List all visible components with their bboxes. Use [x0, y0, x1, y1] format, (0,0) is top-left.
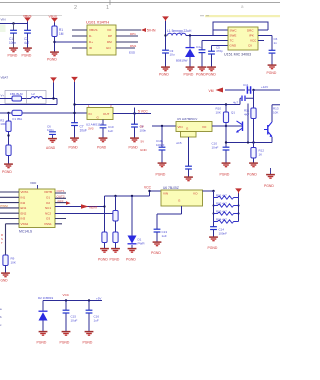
- capacitor C14: [210, 227, 217, 230]
- svg-text:4u7: 4u7: [233, 101, 238, 105]
- label Q1: [231, 111, 235, 115]
- svg-text:ESD: ESD: [129, 51, 136, 55]
- resistor R21: [214, 196, 239, 199]
- pin labels U151 left column: [230, 28, 238, 47]
- svg-text:OUT: OUT: [103, 112, 110, 116]
- wire box2 input: [152, 125, 176, 127]
- svg-text:C4+: C4+: [196, 45, 202, 49]
- power flag PWR4: [71, 77, 78, 82]
- wire R1 top stem: [54, 23, 56, 27]
- resistor R2: [6, 121, 11, 137]
- svg-text:DP: DP: [108, 34, 112, 38]
- svg-text:10nF: 10nF: [212, 145, 219, 149]
- junction dot x162: [161, 125, 163, 127]
- net label VCC red: [144, 186, 152, 190]
- inductor L1 label: [167, 29, 192, 33]
- net label right: [261, 85, 268, 89]
- label U2 below: [86, 123, 103, 131]
- svg-text:U151 MIC 34063: U151 MIC 34063: [224, 53, 251, 57]
- power flag ladder top: [235, 188, 242, 193]
- label C1 value: [9, 37, 16, 45]
- label C6: [274, 37, 278, 45]
- net labels U3 right: [57, 189, 65, 204]
- pin labels U2: [89, 112, 110, 120]
- svg-text:PGND: PGND: [267, 71, 277, 75]
- junction dots bus2: [7, 112, 75, 114]
- ground GND16: [156, 163, 167, 176]
- pin numbers U2: [88, 104, 112, 108]
- wire U6 gnd L path: [157, 206, 182, 229]
- svg-text:5V-IN: 5V-IN: [147, 29, 156, 33]
- capacitor C12: [242, 96, 245, 102]
- label C10: [212, 142, 219, 150]
- resistor R10: [223, 112, 228, 123]
- junction dot x226: [225, 125, 227, 127]
- svg-text:VIN: VIN: [1, 18, 6, 22]
- label red left pair: [140, 140, 148, 153]
- wire U151 top bridge: [213, 22, 268, 36]
- label R2: [0, 119, 5, 127]
- net arrow small: [66, 201, 71, 205]
- label C12: [233, 101, 238, 105]
- wire U2 out: [113, 113, 151, 115]
- wire diode stem: [189, 36, 191, 67]
- svg-text:D2 1N5819: D2 1N5819: [38, 296, 54, 300]
- svg-text:100n: 100n: [140, 128, 147, 132]
- capacitor C1: [10, 30, 17, 33]
- node J-IN left edge label: [0, 18, 6, 33]
- label U3 below: [19, 230, 33, 234]
- svg-text:10uF: 10uF: [71, 318, 78, 322]
- svg-text:NC2: NC2: [45, 211, 51, 215]
- junction dot: [53, 41, 55, 43]
- inductor L1 coil: [168, 33, 186, 35]
- svg-text:VBUS: VBUS: [49, 15, 57, 19]
- wire top net y90: [225, 89, 280, 91]
- pin labels U101 right column: [106, 28, 112, 50]
- svg-text:PWR: PWR: [138, 241, 146, 245]
- svg-text:PGND: PGND: [156, 173, 166, 177]
- svg-text:10u: 10u: [170, 53, 175, 57]
- svg-text:IN3: IN3: [21, 217, 26, 221]
- ground GND2: [22, 48, 32, 57]
- svg-text:VCC: VCC: [144, 186, 152, 190]
- wire Q1 collector: [247, 104, 249, 143]
- wire U151 pin3 to cap C4: [202, 41, 228, 67]
- label U6: [163, 186, 179, 190]
- capacitor C15: [63, 310, 70, 313]
- ground GND20: [1, 273, 10, 282]
- wire U101 left pin stubs: [72, 30, 87, 48]
- label R12: [259, 149, 265, 157]
- svg-text:IN2: IN2: [21, 201, 26, 205]
- svg-text:D+: D+: [89, 40, 93, 44]
- ground GND19: [264, 168, 275, 188]
- junction dot x104.5: [103, 205, 105, 207]
- label C4: [196, 45, 202, 49]
- capacitor C6b column: [47, 125, 56, 139]
- svg-text:OUT2: OUT2: [57, 194, 65, 198]
- transistor Q2: [264, 122, 272, 137]
- svg-text:VIN: VIN: [163, 192, 168, 196]
- svg-text:VO: VO: [107, 28, 112, 32]
- wire cap C2 stem: [27, 24, 29, 48]
- ground GND13: [97, 138, 107, 149]
- svg-text:PGND: PGND: [8, 54, 18, 58]
- svg-text:1K: 1K: [259, 152, 263, 156]
- sheet border top line: [0, 0, 280, 16]
- ground GND5: [184, 67, 195, 76]
- svg-text:DM: DM: [107, 40, 112, 44]
- svg-text:SWC: SWC: [230, 28, 238, 32]
- svg-text:PGND: PGND: [47, 58, 57, 62]
- svg-text:2: 2: [74, 5, 77, 11]
- label FB1: [10, 92, 23, 96]
- ground GND8: [267, 65, 277, 75]
- resistor R11: [251, 108, 256, 119]
- resistor R3: [6, 145, 11, 156]
- resistor R6: [113, 232, 118, 243]
- label R13 right edge: [273, 107, 279, 115]
- label C2 value: [24, 37, 30, 45]
- wire emitter rail y142.5: [226, 142, 272, 144]
- wire filter mid: [22, 98, 32, 100]
- svg-text:4u7: 4u7: [24, 41, 30, 45]
- IC U3 body: [19, 189, 55, 228]
- capacitor C7: [71, 123, 78, 126]
- inductor L2 bumps: [31, 97, 42, 99]
- svg-text:PGND: PGND: [22, 54, 32, 58]
- svg-text:DP1: DP1: [130, 32, 136, 36]
- diode D101: [185, 48, 195, 57]
- label u5 tab: [176, 141, 182, 145]
- capacitor C16: [86, 310, 93, 313]
- wire long bus y104.5: [75, 104, 241, 106]
- resistor R12: [251, 148, 256, 159]
- junction dots bottom net: [65, 299, 90, 301]
- wire cap C1 stem: [13, 24, 15, 48]
- svg-text:1M: 1M: [59, 32, 64, 36]
- svg-text:NC1: NC1: [45, 206, 51, 210]
- ferrite bead FB1: [12, 96, 22, 101]
- filter box divider: [26, 91, 28, 104]
- wire diode D2 stem: [42, 301, 44, 332]
- wire U6 output: [203, 190, 214, 192]
- svg-text:C11: C11: [243, 83, 249, 87]
- svg-text:10uF: 10uF: [80, 128, 87, 132]
- svg-text:T: T: [1, 241, 3, 245]
- label C5: [216, 46, 223, 54]
- label C101: [156, 139, 165, 147]
- svg-text:PGND: PGND: [247, 173, 257, 177]
- svg-text:IPK: IPK: [249, 34, 254, 38]
- ground GND1: [8, 48, 18, 57]
- wire cap C101 column: [161, 126, 163, 163]
- regulator U5 body: [176, 122, 212, 138]
- power flag PWR2: [51, 18, 58, 23]
- ground GND17: [220, 163, 231, 176]
- wire column x132: [131, 196, 133, 248]
- net label VCC bottom: [63, 293, 70, 297]
- resistor R9: [3, 255, 8, 266]
- svg-text:10K: 10K: [273, 110, 278, 114]
- svg-text:D-: D-: [89, 34, 92, 38]
- svg-text:VDD: VDD: [30, 181, 37, 185]
- wire C14 to ground: [213, 230, 215, 237]
- label C11: [243, 83, 249, 87]
- capacitor C10: [223, 147, 230, 150]
- junction dot L1 left: [164, 34, 166, 36]
- svg-text:VO: VO: [202, 125, 207, 129]
- pin labels U3 left column: [21, 190, 29, 226]
- ground GND24: [151, 242, 161, 255]
- svg-text:DRC: DRC: [247, 28, 254, 32]
- svg-text:5 VCC: 5 VCC: [138, 110, 148, 114]
- svg-text:GND: GND: [140, 148, 148, 152]
- wire power column x76: [74, 82, 76, 138]
- node VBUS top-left label: [23, 14, 31, 18]
- svg-text:PGND: PGND: [98, 258, 108, 262]
- svg-text:uC5: uC5: [176, 141, 182, 145]
- IC U151 body: [228, 27, 258, 50]
- fuse F1 on bus: [12, 110, 22, 121]
- svg-text:PGND: PGND: [2, 170, 12, 174]
- svg-text:VSS2: VSS2: [21, 222, 29, 226]
- wire column x115.5: [115, 196, 117, 248]
- wire U5 tab stem: [188, 137, 190, 166]
- label R22: [216, 202, 227, 206]
- svg-text:PWM: PWM: [0, 204, 8, 208]
- resistor R1: [52, 26, 57, 37]
- net label arrow VOUT: [141, 28, 156, 33]
- ground GND22: [110, 249, 120, 262]
- ground GND26: [37, 332, 48, 345]
- wire U3 pin row 202.6: [55, 202, 66, 204]
- svg-text:VBAT: VBAT: [1, 76, 9, 80]
- wire right branch top: [272, 105, 280, 122]
- capacitor C8: [131, 124, 138, 127]
- capacitor C4: [199, 50, 206, 53]
- junction dot diode top: [189, 34, 191, 36]
- label R24: [216, 218, 227, 222]
- label U151: [224, 53, 251, 57]
- ground GND6: [196, 67, 206, 76]
- label C16: [94, 315, 100, 323]
- label R21: [216, 194, 227, 198]
- svg-text:1uF: 1uF: [108, 129, 113, 133]
- node VBUS label R column: [49, 15, 57, 19]
- wire bottom net: [43, 300, 102, 302]
- svg-text:IN: IN: [89, 112, 92, 116]
- svg-text:4K7: 4K7: [244, 112, 250, 116]
- svg-text:Q1: Q1: [231, 111, 235, 115]
- svg-text:100nF: 100nF: [156, 143, 165, 147]
- label R1: [59, 28, 64, 36]
- svg-text:1: 1: [106, 5, 109, 11]
- LED D1: [128, 236, 137, 244]
- wire cap C16 stem: [88, 301, 90, 332]
- svg-text:IN1: IN1: [21, 196, 26, 200]
- junction dot: [12, 22, 14, 24]
- svg-text:10K: 10K: [11, 260, 16, 264]
- wire U3 long pin row 206.5: [55, 206, 105, 208]
- op-amp U101 body: [87, 25, 116, 55]
- capacitor C101: [159, 147, 166, 150]
- svg-text:U101 X34TH: U101 X34TH: [86, 20, 109, 25]
- svg-text:1n: 1n: [274, 41, 278, 45]
- wire U151 right pins: [258, 30, 272, 50]
- power flag arrow VM: [209, 88, 224, 94]
- svg-text:VSS1: VSS1: [44, 222, 52, 226]
- wire switch node: [186, 35, 213, 37]
- wire column x253.5: [253, 90, 255, 163]
- resistor R4: [102, 232, 107, 243]
- op-amp U101 label: [86, 20, 109, 25]
- svg-text:PGND: PGND: [151, 251, 161, 255]
- svg-text:EN1: EN1: [21, 206, 27, 210]
- wire top-left horizontal: [0, 22, 28, 24]
- pin labels U151 right column: [247, 28, 257, 47]
- ground GND14: [129, 138, 139, 149]
- svg-text:VENT: VENT: [89, 206, 98, 210]
- svg-text:5V: 5V: [141, 140, 145, 144]
- svg-text:470p: 470p: [216, 49, 223, 53]
- svg-text:VM: VM: [209, 89, 214, 93]
- svg-text:100n: 100n: [9, 41, 16, 45]
- label R9: [11, 257, 16, 265]
- label C13: [162, 230, 168, 238]
- svg-text:VCC: VCC: [250, 39, 257, 43]
- wire U151 pin4 to cap C5: [212, 46, 229, 67]
- svg-text:PGND: PGND: [37, 341, 47, 345]
- ground GND25: [208, 237, 218, 250]
- svg-text:PGND: PGND: [159, 73, 169, 77]
- svg-text:3V3: 3V3: [88, 126, 94, 130]
- label R23: [216, 210, 227, 214]
- wire R1 bottom to ground: [54, 37, 56, 52]
- label R10: [216, 107, 222, 115]
- svg-text:VCC: VCC: [63, 293, 70, 297]
- ground GND15: [184, 177, 193, 181]
- ground GND27: [60, 332, 71, 345]
- label D2: [38, 296, 54, 300]
- ground GND29: [46, 139, 57, 150]
- ground GND18: [247, 163, 258, 176]
- capacitor C3 buck in: [162, 50, 169, 53]
- svg-text:F1 05A: F1 05A: [13, 117, 23, 121]
- svg-text:100nF: 100nF: [219, 231, 228, 235]
- wire filter right to rail: [0, 99, 57, 105]
- pin labels U101 left column: [89, 28, 97, 50]
- junction dots emitter rail: [225, 141, 255, 143]
- svg-text:L2: L2: [32, 92, 36, 96]
- ground GND21: [98, 249, 109, 262]
- svg-text:GND: GND: [230, 44, 238, 48]
- net label right end: [96, 297, 101, 301]
- resistor R24: [214, 220, 239, 223]
- net label box2 in: [140, 124, 145, 128]
- title band fragment top right: [200, 15, 280, 17]
- label R11: [244, 109, 250, 117]
- svg-text:1uF: 1uF: [94, 318, 99, 322]
- svg-text:PGND: PGND: [83, 341, 93, 345]
- svg-text:PGND: PGND: [220, 173, 230, 177]
- wire U101 right pin stubs: [116, 30, 141, 48]
- wire cap C15 stem: [65, 301, 67, 332]
- wire LED net y196: [105, 195, 150, 197]
- pin labels U5: [178, 125, 208, 131]
- label C7: [80, 125, 87, 133]
- pin labels U3 right column: [44, 190, 52, 226]
- transistor Q1: [236, 121, 243, 133]
- ground GND7: [206, 67, 216, 76]
- filter box outline: [5, 91, 46, 104]
- svg-text:DM1: DM1: [130, 44, 137, 48]
- svg-text:PGND: PGND: [206, 73, 216, 77]
- svg-text:OUT1: OUT1: [57, 189, 65, 193]
- wire U3 long pin row 213.5: [55, 213, 116, 215]
- svg-text:VO: VO: [193, 192, 198, 196]
- label C8: [140, 125, 147, 133]
- regulator U2 body: [87, 108, 113, 120]
- power flag PWR1: [24, 17, 31, 22]
- svg-text:PGND: PGND: [208, 246, 218, 250]
- svg-text:VBUS: VBUS: [23, 14, 31, 18]
- resistor R5: [113, 211, 118, 222]
- capacitor C9: [185, 166, 192, 176]
- svg-text:VDTA: VDTA: [21, 190, 29, 194]
- svg-text:U5 LM7805CV: U5 LM7805CV: [177, 117, 198, 121]
- capacitor C6 right: [269, 50, 276, 64]
- pin labels U6: [163, 192, 198, 203]
- wire bus corner cap C12: [240, 98, 254, 104]
- svg-text:VDTB: VDTB: [44, 190, 52, 194]
- resistor R23: [214, 212, 239, 215]
- capacitor C5: [208, 51, 215, 54]
- svg-text:CII: CII: [248, 44, 252, 48]
- wire U3 right short stubs: [55, 193, 66, 224]
- ground GND23: [126, 249, 136, 262]
- wire filter net left: [0, 98, 12, 100]
- svg-text:AGND: AGND: [46, 146, 56, 150]
- label C14: [219, 228, 228, 236]
- svg-text:V+: V+: [1, 94, 5, 98]
- regulator U6 body: [161, 190, 203, 206]
- svg-text:1uF: 1uF: [162, 234, 167, 238]
- wire R10 column x226: [225, 105, 227, 163]
- svg-text:SWE: SWE: [230, 34, 237, 38]
- node label left edge mid: [1, 76, 9, 98]
- svg-text:10K: 10K: [216, 110, 221, 114]
- net label 5VCC: [138, 110, 148, 114]
- label D1: [138, 238, 146, 246]
- svg-text:GN: GN: [106, 46, 111, 50]
- svg-text:PGND: PGND: [196, 73, 206, 77]
- wire column x104.5: [104, 196, 106, 248]
- label above U3: [30, 181, 38, 189]
- svg-text:O2: O2: [46, 201, 50, 205]
- junction dots bus: [73, 103, 227, 105]
- svg-text:PGND: PGND: [69, 146, 79, 150]
- junction dot out: [133, 108, 135, 115]
- net arrow PWM: [81, 204, 98, 209]
- wire U3 left pin wires: [0, 192, 19, 219]
- net label red on left pin: [0, 204, 8, 208]
- svg-text:VIN: VIN: [178, 125, 183, 129]
- wire U6 input: [148, 190, 161, 196]
- wire R9 to ground: [5, 266, 7, 273]
- wire cap C8 column: [134, 114, 136, 138]
